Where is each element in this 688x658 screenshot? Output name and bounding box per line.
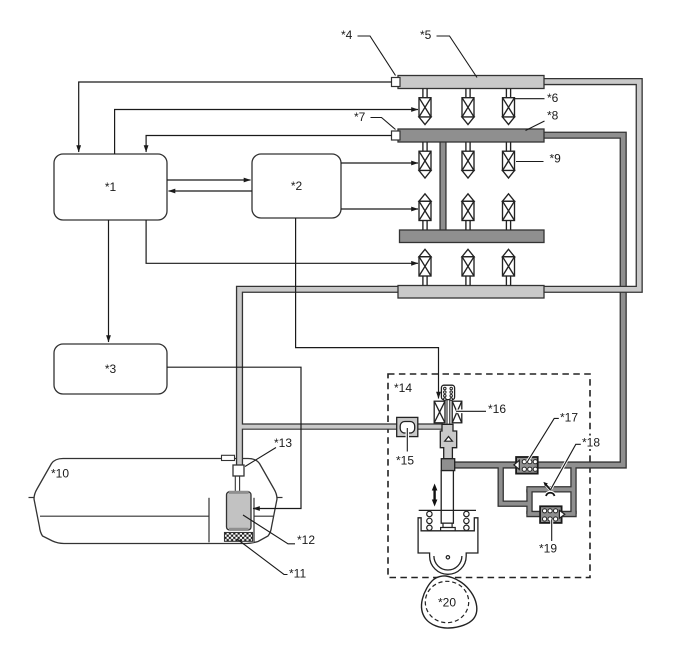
svg-text:*6: *6 — [547, 91, 559, 105]
svg-text:*9: *9 — [550, 152, 562, 166]
svg-text:*18: *18 — [582, 436, 600, 450]
wire D: box *2 to injector row2 — [341, 162, 418, 164]
relief valve *18 symbol — [543, 482, 554, 496]
reciprocation arrow — [432, 484, 438, 507]
HP pump head — [440, 424, 456, 458]
DI fuel rail *8 (bank 1, dark) — [398, 129, 544, 142]
injector row2 col2 — [462, 142, 474, 178]
wire I: box *3 to tank pump *12 — [167, 367, 301, 508]
svg-text:*14: *14 — [394, 381, 412, 395]
*19 valve poppet triangle — [559, 510, 564, 518]
wire H: box *2 to solenoid *16 — [296, 218, 439, 399]
DI fuel rail bank 2 (dark) — [400, 230, 545, 243]
wire C: rail *8 sensor to box *1 — [146, 136, 391, 153]
fuel tank *10 outline — [34, 459, 277, 544]
tank right seam tick — [277, 497, 283, 499]
light pipe gray fills — [240, 289, 400, 464]
tank top flange tab — [222, 455, 235, 460]
ECU box *2 — [252, 154, 341, 218]
ECU box *1 — [54, 154, 167, 220]
injector row3 col2 — [462, 194, 474, 230]
injector row4 col3 — [503, 249, 515, 285]
light pipe: rail *5 right loop down to rail 4 — [543, 82, 639, 290]
right spring coils — [464, 511, 469, 530]
pump bottom cap — [229, 528, 249, 531]
wire G: box *1 to box *3 — [108, 220, 110, 342]
svg-text:*5: *5 — [420, 28, 432, 42]
dark pipe: connector rail *8 to rail 3 — [439, 141, 446, 231]
dark pipe: loop bottom into valve *19 — [526, 511, 544, 517]
solenoid coil left *16 — [434, 401, 445, 423]
solenoid spring cap (*16 top) — [441, 385, 454, 399]
suction strainer *11 — [225, 533, 253, 542]
roller pin — [446, 556, 449, 559]
svg-text:*2: *2 — [291, 179, 303, 193]
svg-text:*3: *3 — [105, 362, 117, 376]
dark pipe gray fills — [453, 135, 623, 465]
injector row2 col3 (*9) — [503, 142, 515, 178]
svg-text:*11: *11 — [289, 567, 306, 581]
svg-text:*8: *8 — [547, 109, 559, 123]
svg-text:*7: *7 — [354, 110, 366, 124]
wire E: box *2 to injector row3 — [341, 208, 418, 210]
svg-text:*16: *16 — [488, 402, 506, 416]
spring top line — [419, 509, 476, 511]
spring cap dots — [444, 387, 453, 400]
tank left seam tick — [29, 497, 35, 499]
cam lobe *20 — [422, 576, 477, 628]
pump inlet fitting *15 — [397, 417, 418, 436]
port fuel rail *5 (bank 1, light) — [398, 76, 544, 89]
wire F: box *1 to injector row4 — [146, 220, 418, 263]
svg-text:*12: *12 — [297, 533, 315, 547]
dark pipe: valve *19 outlet — [560, 511, 577, 517]
light pipe: feed from tank to port rail *5 loop — [240, 289, 400, 464]
svg-text:*19: *19 — [539, 542, 557, 556]
HP junction block — [441, 459, 454, 471]
roller — [434, 556, 462, 570]
wire B: box *1 to injector row1 — [115, 110, 418, 155]
dashed enclosure box *14 (high-pressure pump unit) — [388, 374, 590, 578]
light pipe: tee branch to pump inlet *15 — [240, 423, 444, 429]
label *18 + leader — [580, 436, 602, 450]
solenoid coil right *16 — [452, 401, 462, 423]
wire A: rail *5 sensor to box *1 — [79, 82, 392, 152]
dark pipe: DI rail *8 to riser and HP pump main line — [453, 135, 623, 465]
svg-text:*20: *20 — [438, 596, 456, 610]
pressure sensor fitting *7 on rail *8 — [392, 131, 401, 140]
fitting *15 inner seal — [400, 422, 415, 434]
injector row2 col1 — [419, 142, 431, 178]
inlet check valve triangle — [445, 437, 453, 442]
cam base circle (dashed) — [425, 581, 468, 622]
svg-text:*17: *17 — [560, 411, 578, 425]
svg-text:*4: *4 — [341, 28, 353, 42]
injector row4 col1 — [419, 249, 431, 285]
plunger neck — [443, 523, 452, 527]
tappet body — [418, 518, 478, 575]
dark pipe: branch before check valve *17 — [501, 464, 530, 504]
left spring coils — [427, 511, 432, 530]
box *3 — [54, 344, 167, 394]
wire K: box *2 to box *1 arrow — [169, 190, 253, 192]
fuel level line — [40, 515, 273, 517]
suction pipe in tank — [235, 476, 239, 494]
svg-text:*10: *10 — [51, 467, 69, 481]
wire J: box *1 to box *2 arrow — [167, 179, 251, 181]
spring seat — [441, 528, 456, 532]
check valve *17 — [516, 457, 538, 474]
*17 valve poppet triangle — [514, 460, 519, 469]
injector row1 col1 — [419, 89, 431, 125]
in-tank fuel pump *12 — [227, 492, 252, 530]
plunger — [441, 471, 453, 524]
injector row1 col2 — [462, 89, 474, 125]
injector row4 col2 — [462, 249, 474, 285]
port fuel rail bank 2 (light) — [398, 286, 544, 299]
tank outlet fitting *13 — [233, 465, 244, 476]
injector row1 col3 (*6) — [503, 89, 515, 125]
pressure sensor fitting *4 on rail *5 — [392, 78, 401, 87]
pump top cap — [229, 491, 249, 494]
check valve *19 — [540, 506, 562, 523]
pump reserve well — [209, 498, 254, 543]
dark pipe: relief loop top through *18 — [526, 486, 573, 492]
svg-text:*1: *1 — [105, 180, 117, 194]
injector row3 col3 — [503, 194, 515, 230]
solenoid needle stem — [447, 400, 450, 436]
svg-text:*15: *15 — [396, 454, 414, 468]
svg-text:*13: *13 — [274, 436, 292, 450]
dark pipe: loop right vertical after *17 — [570, 464, 576, 514]
injector row3 col1 — [419, 194, 431, 230]
dark pipe: relief loop left vertical — [526, 489, 532, 514]
